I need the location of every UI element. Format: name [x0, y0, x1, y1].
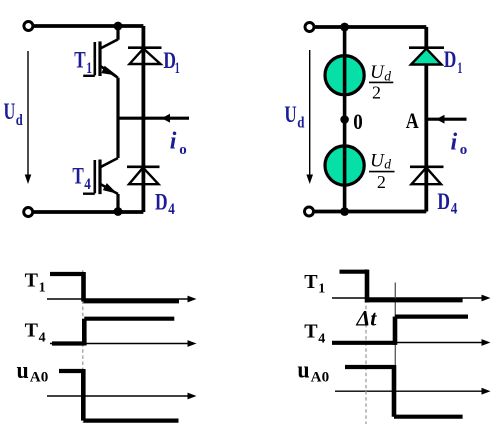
svg-text:U: U	[370, 62, 385, 83]
svg-text:A0: A0	[311, 370, 330, 386]
svg-text:i: i	[170, 129, 177, 155]
svg-text:T: T	[74, 48, 85, 73]
svg-text:D: D	[444, 47, 457, 72]
svg-text:T: T	[25, 320, 39, 342]
svg-text:U: U	[370, 150, 385, 171]
svg-text:4: 4	[318, 332, 325, 347]
svg-text:T: T	[72, 164, 83, 189]
svg-text:0: 0	[353, 109, 363, 134]
svg-text:4: 4	[84, 176, 91, 193]
svg-text:d: d	[16, 112, 23, 129]
svg-text:T: T	[25, 270, 39, 292]
svg-text:Δt: Δt	[356, 306, 378, 331]
svg-text:i: i	[451, 130, 458, 156]
svg-text:d: d	[384, 68, 391, 83]
svg-text:4: 4	[168, 201, 175, 218]
svg-text:D: D	[155, 189, 168, 214]
svg-text:4: 4	[39, 331, 46, 346]
svg-text:A: A	[406, 108, 419, 133]
svg-text:U: U	[284, 102, 297, 127]
svg-text:T: T	[304, 321, 318, 343]
svg-text:1: 1	[175, 60, 180, 77]
svg-text:4: 4	[451, 201, 458, 218]
svg-text:2: 2	[372, 82, 381, 102]
svg-text:1: 1	[39, 281, 46, 296]
svg-text:o: o	[179, 142, 187, 158]
svg-text:u: u	[297, 358, 309, 384]
svg-text:D: D	[437, 189, 450, 214]
svg-text:1: 1	[318, 282, 325, 297]
svg-text:d: d	[297, 114, 304, 131]
svg-text:o: o	[460, 142, 468, 158]
svg-text:1: 1	[457, 60, 462, 77]
svg-text:d: d	[384, 156, 391, 171]
svg-text:2: 2	[377, 172, 386, 192]
svg-text:u: u	[17, 358, 29, 384]
svg-text:1: 1	[86, 60, 92, 77]
svg-text:A0: A0	[30, 370, 49, 386]
svg-text:U: U	[4, 99, 16, 124]
svg-text:T: T	[304, 271, 318, 293]
